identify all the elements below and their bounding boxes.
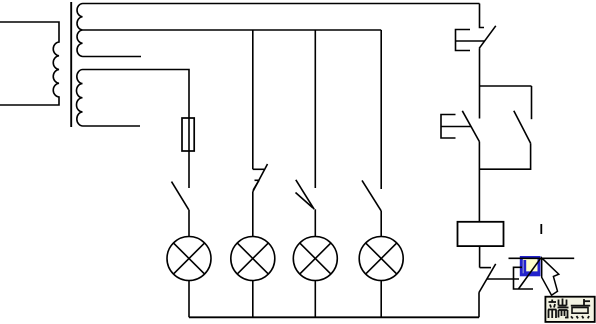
switch QS2 contact bracket	[441, 115, 456, 139]
wire: lamp EL4 to bottom bus	[380, 281, 382, 318]
mouse cursor arrow	[542, 258, 559, 295]
osnap tooltip box 端点	[545, 297, 594, 322]
wire: bus2 down to switch S4	[380, 30, 382, 189]
wire: W2 top tap to fuse column	[83, 70, 190, 119]
tooltip text 端	[548, 299, 569, 319]
switch QS1 contact bracket	[456, 30, 471, 51]
wire: coil to contact K1	[479, 246, 481, 268]
switch S2 contacts and blade	[253, 168, 264, 170]
switch S1 blade	[172, 182, 189, 210]
wire: lamp EL1 to bottom bus	[188, 281, 190, 318]
switch S3 blade with arrow	[296, 180, 314, 210]
switch QS2 blade	[462, 111, 479, 142]
switch S4 blade	[362, 180, 381, 211]
wire: S1 to lamp EL1	[188, 210, 190, 237]
switch QS1 blade	[479, 26, 496, 49]
wire: S2 to lamp EL2	[252, 192, 254, 237]
lamp EL4	[359, 237, 403, 281]
wire: bus2 down to switch S3	[314, 30, 316, 188]
lamp EL3	[293, 237, 337, 281]
osnap endpoint marker (blue square)	[521, 258, 539, 275]
wire: top bus corner down to switch QS1	[480, 4, 485, 28]
wire: W2 bottom stub	[83, 125, 141, 127]
wire: S4 to lamp EL4	[380, 211, 382, 237]
contact K1 blade	[479, 264, 496, 293]
bottom bus wire	[189, 316, 479, 318]
wire: K1 down to bottom bus	[478, 293, 480, 318]
lamp EL2	[231, 237, 275, 281]
wire: lamp EL2 to bottom bus	[252, 281, 254, 318]
wire: top bus from W1 top to right column	[83, 3, 480, 5]
wire: right parallel branch down	[531, 86, 533, 119]
transformer T1 core	[70, 2, 72, 127]
transformer T1 secondary winding W2 (bottom)	[76, 70, 82, 127]
transformer T1 primary winding	[0, 22, 59, 105]
contact K1 fixed tick	[480, 267, 491, 269]
transformer T1 secondary winding W1 (top)	[77, 4, 82, 57]
wire: S3 to lamp EL3	[314, 209, 316, 236]
endpoint bracket contact under marker	[514, 267, 534, 289]
relay coil KA	[458, 222, 504, 246]
wire: QS3 down to junction	[479, 143, 530, 169]
wire: QS2 down to relay coil	[478, 142, 480, 222]
wire: QS1 down to parallel split	[479, 48, 481, 118]
wire: second bus from W1 center tap	[83, 29, 382, 31]
lamp EL1	[167, 237, 211, 281]
crosshair top dash	[540, 224, 542, 234]
crosshair horizontal line	[509, 257, 575, 259]
switch QS3 blade	[514, 111, 531, 144]
blade at snap endpoint	[519, 258, 541, 289]
wire: W1 bottom stub	[83, 56, 142, 58]
wire: lamp EL3 to bottom bus	[314, 281, 316, 318]
wire: bus2 down to switch S2	[252, 30, 254, 169]
tooltip text 点	[571, 299, 590, 318]
wire: split top horizontal	[480, 85, 532, 87]
wire: K1 blade tap to endpoint bracket	[487, 278, 519, 280]
fuse FU1	[188, 118, 190, 151]
wire: fuse to switch S1	[188, 151, 190, 188]
